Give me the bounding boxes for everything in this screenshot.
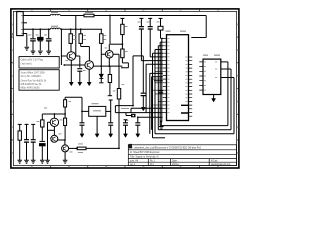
resistor R4 xyxy=(81,29,90,60)
U2 right pins + bus to left xyxy=(160,62,228,126)
wire rail1 (5V) xyxy=(23,16,206,38)
capacitor C12 (polarized) xyxy=(40,140,46,142)
ground (Q4) xyxy=(45,160,50,163)
wire to U1 pin row a xyxy=(131,108,163,112)
power bar (Y1) xyxy=(159,18,163,26)
capacitor C3 xyxy=(48,29,50,51)
bus vertical 6 xyxy=(146,64,163,112)
resistor R11 xyxy=(18,131,21,140)
resistor R9 (Q3 collector load) xyxy=(117,89,120,100)
power bar (R11) xyxy=(18,124,22,130)
IC U2 xyxy=(203,59,221,94)
jumper JP1 feed xyxy=(126,113,131,116)
wire Q3 right xyxy=(113,54,119,88)
wire bus row4 xyxy=(153,137,166,139)
connector J1 pin stub xyxy=(23,22,27,24)
IC U1 xyxy=(167,35,189,121)
ground arrow (C5) xyxy=(141,107,145,110)
capacitor C13 xyxy=(141,29,162,61)
U2 left pins xyxy=(199,62,203,90)
ground bar (D1) xyxy=(99,82,103,84)
svg-text:Green Run Vin 4k&5V 3k: Green Run Vin 4k&5V 3k xyxy=(21,79,47,82)
bus vertical 4 xyxy=(160,42,163,126)
svg-text:size: A4: size: A4 xyxy=(130,159,139,162)
capacitor C11 xyxy=(32,142,34,160)
capacitor C8 xyxy=(125,125,127,134)
svg-text:file: datasheet_dev_pcb/Electr: file: datasheet_dev_pcb/Electronics-r/ 1… xyxy=(130,147,202,150)
connector J1 xyxy=(17,12,24,36)
ground (C10) xyxy=(24,160,29,163)
wire Q3 top xyxy=(108,44,110,50)
svg-text:Id: Sheet/507 1508 Exported: Id: Sheet/507 1508 Exported xyxy=(130,151,160,154)
resistor R3 xyxy=(70,29,72,51)
U1 pin numbers (gray) xyxy=(167,38,187,113)
ground arrow (U2) xyxy=(212,99,216,102)
ground (J1) xyxy=(25,47,30,50)
transistor Q4 xyxy=(50,118,58,126)
resistor R7 xyxy=(109,66,111,95)
bus vertical 5 xyxy=(162,38,163,121)
ground arrow (C4) xyxy=(78,82,82,85)
wire X1 left pin xyxy=(65,97,89,111)
notes box 2 xyxy=(19,70,59,91)
capacitor C15 (bus) xyxy=(159,91,164,93)
ground (C1) xyxy=(31,51,36,54)
resistor R5 xyxy=(101,29,105,74)
ground (C12) xyxy=(40,160,45,163)
ground (Q6) xyxy=(63,160,68,163)
wire Q6 emitter xyxy=(64,152,66,160)
power bar (C10) xyxy=(25,124,29,139)
capacitor C5 xyxy=(142,56,144,93)
wire Q5 right xyxy=(58,140,65,145)
svg-text:KiCad: KiCad xyxy=(211,160,218,162)
junction dots xyxy=(32,15,162,150)
bus vertical 8 xyxy=(151,77,153,130)
wire J1 ground pin xyxy=(23,34,27,47)
capacitor C14 xyxy=(150,29,163,57)
resistor R6 xyxy=(121,24,124,34)
wire Q2 emitter xyxy=(88,69,90,82)
ground (R11) xyxy=(17,160,22,163)
bus vertical 2 xyxy=(155,50,163,134)
wire Q4 base/left xyxy=(48,122,51,160)
transistor Q2 xyxy=(85,61,94,70)
ground (C2) xyxy=(38,51,43,54)
power bar (C13) xyxy=(139,18,143,26)
ground arrow (C9) xyxy=(136,134,140,137)
resistor R10 xyxy=(64,97,66,140)
svg-text:Date:: Date: xyxy=(172,159,178,162)
svg-text:rev 1: rev 1 xyxy=(130,163,136,166)
U1 NC bars xyxy=(181,105,188,113)
ground arrow (C8) xyxy=(124,134,128,137)
resistor R10b xyxy=(64,118,67,125)
svg-text:Title: Supply to Serial dgt +: Title: Supply to Serial dgt +5 xyxy=(130,156,159,159)
wire rail2 (3V3) xyxy=(23,28,102,30)
U1 bus taps xyxy=(153,57,163,105)
wire X1 right pin xyxy=(106,110,111,112)
svg-text:Rv 1: Rv 1 xyxy=(150,160,155,162)
svg-text:Vcore White 1347 1506: Vcore White 1347 1506 xyxy=(21,72,46,75)
diode D1 xyxy=(99,74,103,78)
power bar (C14) xyxy=(148,18,152,26)
svg-text:Cable w/5V 3.3V Plug: Cable w/5V 3.3V Plug xyxy=(21,59,44,61)
ground arrow (C7) xyxy=(109,134,113,137)
ground arrow (Q2) xyxy=(87,82,91,85)
power bar (R6 column) xyxy=(120,18,124,24)
capacitor C1 xyxy=(32,29,34,51)
wire Q6 right xyxy=(69,147,78,149)
wire Q2 base xyxy=(64,64,85,66)
connector J1 label xyxy=(17,9,21,10)
ground arrow (X1) xyxy=(95,134,99,137)
wire to U1 pin row c xyxy=(138,116,163,118)
frame outer border xyxy=(11,9,239,168)
title block xyxy=(128,145,236,166)
crystal Y1 xyxy=(158,26,163,30)
ground bar (R7) xyxy=(108,95,112,97)
notes text xyxy=(21,59,47,89)
oscillator X1 xyxy=(89,106,106,116)
power bar (C11) xyxy=(31,124,35,139)
wire rail1 tap to Q3 xyxy=(109,16,111,45)
capacitor C6 xyxy=(81,111,83,133)
wire X1 bottom pin xyxy=(96,116,98,134)
jumper JP1 xyxy=(131,114,136,118)
wire to U1 pin row b xyxy=(115,112,162,114)
wire rail2 drop left xyxy=(60,29,62,65)
wire Q4-Q5 xyxy=(53,127,55,136)
wire Q5 base xyxy=(48,129,55,131)
transistor Q1 xyxy=(67,52,76,61)
capacitor C7 xyxy=(110,125,112,134)
wire Q1 base xyxy=(61,55,67,57)
power bar (C7) xyxy=(109,100,113,123)
capacitor C2 (polarized) xyxy=(38,29,43,50)
ground (C11) xyxy=(31,160,36,163)
wire R13 to R9 xyxy=(86,147,119,149)
capacitor C9 xyxy=(137,117,139,134)
inductor L2 xyxy=(50,28,60,29)
connector J1 pin marks xyxy=(21,16,23,34)
frame inner border xyxy=(13,11,236,165)
U1 left pins xyxy=(163,38,167,112)
bus staircase mid xyxy=(150,73,163,80)
ground (U1) xyxy=(160,121,162,126)
svg-text:Vin to 5k –VDD&5V–: Vin to 5k –VDD&5V– xyxy=(21,75,43,78)
bus vertical 3 xyxy=(158,46,163,130)
wire R6 junction to Q3 xyxy=(110,43,122,45)
title block text xyxy=(130,147,231,166)
wire node row xyxy=(42,113,65,115)
wire Q1 collector-cap xyxy=(76,56,80,68)
svg-text:www.kicad-pcb.org: www.kicad-pcb.org xyxy=(211,163,231,166)
wire rail1 drop to Q1 xyxy=(75,16,77,57)
wire Q3 bottom xyxy=(93,58,122,66)
ground arrow (C6) xyxy=(80,134,84,137)
resistor R8 xyxy=(121,49,124,58)
net label blob xyxy=(129,144,132,148)
wire U2 bottom xyxy=(213,95,215,99)
resistor R13 xyxy=(77,147,86,150)
capacitor C4 xyxy=(77,69,82,72)
U1 right pins xyxy=(189,57,193,116)
ground (C3) xyxy=(46,51,51,54)
svg-text:sht/rev: sht/rev xyxy=(172,163,180,166)
svg-text:D/B 4k&3V/5 Vee 3k: D/B 4k&3V/5 Vee 3k xyxy=(21,84,43,86)
wire mid chain xyxy=(115,56,143,113)
power bar (C8) xyxy=(124,120,128,123)
resistor R2 (series, rail1) xyxy=(84,14,94,17)
notes box 1 xyxy=(19,57,59,91)
U2 pin numbers (gray) xyxy=(204,62,217,91)
inductor L1 xyxy=(50,14,60,15)
transistor Q3 xyxy=(106,50,114,58)
ground arrow (Q1) xyxy=(69,82,73,85)
resistor R12 xyxy=(41,114,43,120)
wire Q1 emitter xyxy=(70,60,72,82)
transistor Q5 xyxy=(51,135,58,142)
wire Q4 top xyxy=(53,114,55,118)
frame tick marks xyxy=(11,9,239,168)
main schematic xyxy=(17,9,235,163)
svg-text:( w/o seal ): ( w/o seal ) xyxy=(21,64,32,66)
capacitor C10 xyxy=(26,142,28,160)
bus vertical 7 xyxy=(149,73,151,133)
component value labels (gray) xyxy=(12,12,220,153)
transistor Q6 xyxy=(62,145,69,152)
bus vertical 1 xyxy=(153,53,163,138)
svg-text:MISo 4V/45 3v000: MISo 4V/45 3v000 xyxy=(21,88,41,90)
